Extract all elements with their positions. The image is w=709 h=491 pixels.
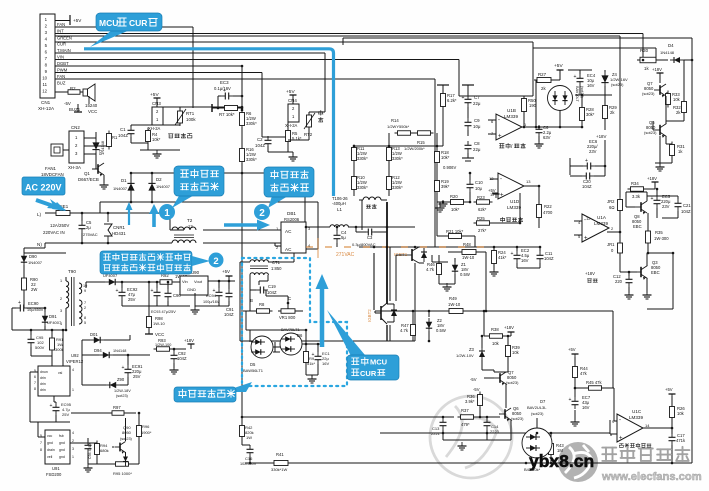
svg-text:(sot23): (sot23) bbox=[531, 411, 544, 416]
terminal bar bbox=[211, 104, 213, 112]
diode D01 bbox=[90, 337, 104, 343]
power +5V R44 bbox=[572, 354, 579, 358]
svg-text:4.7k: 4.7k bbox=[426, 267, 435, 272]
resistor R29 2k bbox=[603, 103, 608, 122]
thermistor RT2 bbox=[307, 112, 312, 130]
svg-text:U92: U92 bbox=[71, 353, 79, 358]
resistor R33 10k bbox=[666, 91, 671, 108]
svg-text:12A/250V: 12A/250V bbox=[50, 223, 69, 228]
varistor CNR1 HD431 bbox=[104, 213, 112, 243]
capacitor C95 102 bbox=[28, 335, 35, 347]
svg-text:EBC: EBC bbox=[651, 270, 660, 275]
cyan arrow AC input bbox=[34, 199, 66, 210]
svg-text:-: - bbox=[498, 118, 500, 124]
label VCC bbox=[148, 328, 150, 334]
capacitor C7 22u bbox=[465, 95, 472, 107]
cyan circled 1 bbox=[159, 204, 175, 220]
svg-text:PWM: PWM bbox=[57, 68, 68, 73]
cyan arrow small up bbox=[128, 208, 130, 225]
svg-text:10μ/450V: 10μ/450V bbox=[27, 308, 44, 312]
wire psu left bbox=[24, 247, 45, 249]
svg-text:FAN: FAN bbox=[57, 74, 65, 79]
svg-text:8: 8 bbox=[84, 316, 86, 320]
svg-text:D7: D7 bbox=[540, 399, 546, 404]
svg-text:+5V: +5V bbox=[286, 89, 295, 95]
svg-text:gnd: gnd bbox=[59, 441, 65, 445]
svg-text:Z3: Z3 bbox=[469, 347, 475, 352]
resistor R26 10k bbox=[670, 404, 675, 421]
svg-text:+18V: +18V bbox=[184, 338, 194, 343]
zener Z3 10V bbox=[481, 336, 483, 348]
svg-text:1N4007: 1N4007 bbox=[156, 184, 171, 189]
resistor R46 4.7k bbox=[437, 261, 442, 278]
svg-text:+5V: +5V bbox=[222, 269, 230, 274]
svg-text:D91: D91 bbox=[49, 314, 57, 319]
svg-text:8: 8 bbox=[34, 387, 36, 391]
wire MCU bus pin6 bbox=[55, 52, 325, 54]
svg-text:10μ: 10μ bbox=[475, 186, 483, 191]
svg-text:330k*: 330k* bbox=[246, 157, 257, 162]
capacitor EC93 47u/25V bbox=[154, 288, 161, 300]
svg-text:7: 7 bbox=[40, 441, 42, 445]
wire q7 emitter bbox=[479, 407, 481, 417]
svg-text:4: 4 bbox=[72, 431, 74, 435]
dual diode D7 BAV2UL3L bbox=[522, 428, 552, 458]
svg-text:LM339: LM339 bbox=[594, 221, 608, 226]
svg-text:R38: R38 bbox=[491, 327, 499, 332]
connector CN3 XH-2A bbox=[152, 107, 163, 125]
svg-text:4700: 4700 bbox=[543, 210, 553, 215]
wire d5 d6 bbox=[249, 330, 251, 342]
callout MCU CUR bubble bbox=[90, 30, 130, 47]
ground R46 Z1 bbox=[438, 276, 440, 284]
dual diode D51 BAV99 bbox=[548, 86, 573, 111]
wire Q1 emitter bbox=[103, 175, 105, 183]
svg-text:drain: drain bbox=[47, 448, 55, 452]
svg-text:2: 2 bbox=[72, 439, 74, 443]
svg-text:ybx8.cn: ybx8.cn bbox=[529, 451, 594, 471]
svg-text:BAW56LT1: BAW56LT1 bbox=[243, 368, 264, 373]
wire heavy emitter x374 bbox=[373, 253, 375, 310]
svg-text:R30: R30 bbox=[640, 48, 649, 53]
capacitor EC92 47u bbox=[119, 288, 126, 300]
svg-text:DGBT: DGBT bbox=[57, 61, 69, 66]
transistor Q90 8050 bbox=[115, 442, 126, 454]
capacitor C17 471k bbox=[669, 433, 676, 445]
svg-text:FAN: FAN bbox=[57, 22, 65, 27]
wire CT1 primary bbox=[240, 261, 250, 263]
svg-text:gnd: gnd bbox=[47, 441, 53, 445]
svg-text:1W-300: 1W-300 bbox=[654, 236, 669, 241]
svg-text:4: 4 bbox=[60, 322, 62, 326]
svg-text:XH-12A: XH-12A bbox=[38, 106, 55, 111]
transistor Q5 bbox=[654, 124, 667, 138]
wire q7 cluster bbox=[533, 47, 656, 49]
svg-text:1W-10: 1W-10 bbox=[153, 321, 165, 326]
svg-text:CUR: CUR bbox=[360, 369, 377, 378]
resistor R13 330k* bbox=[387, 145, 392, 164]
capacitor C19 104Z bbox=[256, 287, 268, 294]
svg-text:L1: L1 bbox=[337, 207, 342, 212]
resistor R34 3.3k bbox=[628, 187, 647, 192]
svg-text:330k*: 330k* bbox=[392, 156, 403, 161]
svg-text:104Z: 104Z bbox=[177, 356, 187, 361]
svg-text:2μ: 2μ bbox=[86, 225, 91, 230]
svg-text:Vout: Vout bbox=[194, 279, 203, 284]
svg-text:1N4148: 1N4148 bbox=[660, 50, 675, 55]
svg-text:25V: 25V bbox=[62, 412, 69, 417]
svg-text:-: - bbox=[500, 177, 502, 183]
svg-text:XH-2A: XH-2A bbox=[285, 123, 298, 128]
svg-text:JR2: JR2 bbox=[607, 199, 615, 204]
capacitor C9 10u bbox=[465, 118, 472, 130]
svg-text:1/2W/200k*: 1/2W/200k* bbox=[404, 146, 425, 151]
zener Z4 16V bbox=[604, 70, 606, 72]
resistor R4 10k* bbox=[146, 128, 151, 145]
diode D93 UF4007 bbox=[105, 279, 119, 285]
svg-text:R14: R14 bbox=[391, 118, 399, 123]
svg-text:63V: 63V bbox=[543, 135, 551, 140]
svg-text:RT2: RT2 bbox=[304, 132, 313, 137]
svg-text:1/2W-10V: 1/2W-10V bbox=[456, 353, 474, 358]
svg-text:IGBT2: IGBT2 bbox=[367, 309, 372, 322]
svg-text:-5V: -5V bbox=[470, 377, 477, 382]
svg-text:47k: 47k bbox=[580, 371, 588, 376]
resistor R14 550k* bbox=[395, 131, 414, 136]
svg-text:(sot23): (sot23) bbox=[642, 91, 655, 96]
resistor R95 1000* bbox=[113, 462, 132, 467]
svg-text:T2: T2 bbox=[187, 218, 193, 223]
power +5V CN3 bbox=[154, 98, 161, 102]
svg-text:INT: INT bbox=[57, 29, 64, 34]
wire pan verticals bbox=[361, 200, 363, 230]
capacitor EC7 43u bbox=[572, 397, 579, 409]
pin label FAN bbox=[55, 26, 193, 28]
svg-text:(sot23): (sot23) bbox=[644, 130, 657, 135]
orange power path bbox=[306, 246, 490, 248]
svg-text:0.5W: 0.5W bbox=[460, 272, 470, 277]
cyan circled 2 bbox=[254, 204, 270, 220]
dual diode D5 BAW56LT1 bbox=[251, 336, 273, 358]
svg-text:(sot23): (sot23) bbox=[611, 82, 624, 87]
svg-text:4: 4 bbox=[72, 368, 74, 372]
svg-text:0.3μ/800VAC: 0.3μ/800VAC bbox=[352, 242, 376, 247]
svg-text:C10: C10 bbox=[475, 180, 483, 185]
svg-text:1k: 1k bbox=[644, 66, 649, 71]
svg-text:16V: 16V bbox=[322, 361, 329, 366]
svg-text:+18V: +18V bbox=[596, 134, 606, 139]
capacitor C90 bbox=[165, 289, 172, 301]
svg-text:25V: 25V bbox=[133, 374, 141, 379]
ground CN3 bbox=[147, 143, 149, 150]
capacitor C8 22u bbox=[465, 141, 472, 153]
svg-text:330k*1W: 330k*1W bbox=[271, 467, 287, 472]
svg-text:Z90: Z90 bbox=[117, 377, 125, 382]
svg-text:1/2WY550k*: 1/2WY550k* bbox=[387, 124, 410, 129]
capacitor C13 2221 bbox=[440, 418, 447, 430]
svg-text:R27: R27 bbox=[538, 72, 547, 77]
svg-text:2221: 2221 bbox=[431, 431, 441, 436]
svg-text:drin: drin bbox=[40, 382, 46, 386]
svg-text:U1C: U1C bbox=[632, 409, 642, 414]
svg-text:R95 1000*: R95 1000* bbox=[113, 471, 132, 476]
svg-text:+: + bbox=[619, 436, 623, 442]
wire detect rail y173 bbox=[131, 172, 305, 174]
resistor R2 bbox=[65, 90, 83, 95]
wire fan row y417 bbox=[242, 416, 454, 418]
svg-text:C2: C2 bbox=[257, 137, 263, 142]
ground Q3 bbox=[646, 278, 648, 293]
svg-text:10k*: 10k* bbox=[451, 207, 460, 212]
label zhuwen bbox=[318, 110, 323, 115]
svg-text:(sot23): (sot23) bbox=[116, 394, 129, 398]
svg-text:D5: D5 bbox=[250, 362, 256, 367]
svg-text:BAV70LT: BAV70LT bbox=[575, 86, 579, 102]
svg-text:1: 1 bbox=[60, 279, 62, 283]
resistor R1 bbox=[107, 131, 112, 150]
svg-text:R37: R37 bbox=[461, 408, 469, 413]
svg-text:220: 220 bbox=[615, 279, 623, 284]
svg-text:C16: C16 bbox=[245, 456, 253, 461]
svg-text:+: + bbox=[569, 397, 572, 403]
dual diode D6 BAV70LT1 bbox=[280, 333, 302, 355]
diode D94 1N4148 bbox=[99, 352, 113, 358]
callout AC 220V box bbox=[22, 177, 65, 195]
svg-text:+: + bbox=[462, 95, 465, 101]
transistor Q7 top bbox=[654, 84, 666, 97]
watermark elecfans gray disc logo bbox=[558, 442, 598, 482]
svg-text:1N4148: 1N4148 bbox=[100, 140, 105, 155]
wire MCU bus GREEN pin4 bbox=[55, 35, 620, 37]
svg-text:6: 6 bbox=[34, 375, 36, 379]
ground CN4 bbox=[292, 152, 294, 155]
resistor R45 47k bbox=[586, 386, 605, 391]
svg-text:30k*: 30k* bbox=[586, 112, 595, 117]
svg-text:(sot23): (sot23) bbox=[511, 416, 524, 421]
transistor Q6 8050 bbox=[499, 408, 511, 421]
svg-text:R21 10k*: R21 10k* bbox=[446, 229, 464, 234]
svg-text:500V: 500V bbox=[35, 345, 45, 350]
resistor R18 10k* bbox=[435, 149, 440, 166]
capacitor EC6 220u bbox=[583, 163, 595, 170]
wire live y202 bbox=[100, 201, 318, 203]
connector CN4 XH-2A bbox=[288, 104, 299, 122]
svg-text:vsl: vsl bbox=[58, 371, 63, 375]
wire igbt1 emitter bbox=[414, 263, 416, 341]
svg-text:R20: R20 bbox=[450, 194, 458, 199]
resistor R25 27k* bbox=[474, 221, 493, 226]
svg-text:10k*: 10k* bbox=[152, 137, 161, 142]
wire DC+ y227 bbox=[306, 226, 330, 228]
svg-text:10k: 10k bbox=[677, 411, 685, 416]
ic U92 VIPER12 bbox=[38, 366, 70, 396]
svg-text:vcc: vcc bbox=[47, 434, 53, 438]
svg-text:+5V: +5V bbox=[554, 63, 563, 69]
resistor R28 30k* bbox=[580, 105, 585, 124]
capacitor C5 2u bbox=[79, 221, 86, 233]
svg-text:VIN: VIN bbox=[57, 55, 64, 60]
svg-text:gnd: gnd bbox=[59, 448, 65, 452]
svg-text:D94: D94 bbox=[94, 348, 102, 353]
svg-text:BUZ1: BUZ1 bbox=[69, 107, 81, 112]
svg-text:T.MAIN: T.MAIN bbox=[57, 48, 71, 53]
ground EC7 bbox=[571, 418, 580, 426]
svg-text:AC: AC bbox=[285, 229, 292, 234]
resistor R98 1W-10 bbox=[147, 314, 152, 331]
svg-text:RT1: RT1 bbox=[186, 111, 195, 116]
svg-text:D90: D90 bbox=[29, 254, 37, 259]
ground Q5 bbox=[659, 163, 661, 165]
svg-text:4.7k: 4.7k bbox=[400, 328, 409, 333]
svg-text:-5V: -5V bbox=[64, 101, 71, 106]
svg-text:L): L) bbox=[37, 212, 42, 217]
wire MCU bus PWM pin9 bbox=[55, 72, 262, 74]
svg-text:10k: 10k bbox=[512, 350, 520, 355]
capacitor C11 104Z bbox=[537, 251, 544, 263]
svg-text:10k*: 10k* bbox=[441, 155, 450, 160]
svg-text:VIPER12: VIPER12 bbox=[66, 359, 84, 364]
svg-text:275VAC: 275VAC bbox=[83, 232, 98, 237]
svg-text:R23: R23 bbox=[477, 195, 485, 200]
diode D91 UF4007 bbox=[44, 308, 46, 312]
svg-text:+: + bbox=[50, 403, 53, 409]
svg-text:+: + bbox=[651, 196, 654, 202]
svg-text:Q1: Q1 bbox=[84, 171, 90, 176]
inductor L1 T106-26 400uH bbox=[330, 225, 348, 227]
resistor R17 6.2k* bbox=[441, 91, 446, 110]
svg-text:C7: C7 bbox=[474, 95, 480, 100]
svg-text:1/2W-18V: 1/2W-18V bbox=[114, 389, 131, 393]
diode D4 1N4148 bbox=[670, 57, 684, 63]
svg-text:+18V: +18V bbox=[504, 325, 514, 330]
svg-text:+: + bbox=[312, 352, 315, 358]
cyan circled 2b bbox=[209, 253, 224, 268]
capacitor EC5 220u bbox=[654, 196, 661, 208]
wire t90 sec bbox=[85, 281, 87, 283]
capacitor C14 2223 bbox=[484, 418, 491, 430]
svg-text:+: + bbox=[511, 251, 514, 257]
svg-text:1: 1 bbox=[72, 455, 74, 459]
speaker BUZ1 bbox=[83, 84, 95, 104]
resistor R48 1W-10 bbox=[459, 250, 479, 255]
resistor R21 10k* bbox=[446, 234, 465, 239]
cyan arrow right to DB1 bbox=[224, 223, 259, 227]
svg-text:FAN1: FAN1 bbox=[45, 166, 57, 171]
wire sense chain x242 bbox=[241, 66, 243, 112]
transformer T2 line filter bbox=[172, 227, 196, 230]
resistor R49 1W-10 bbox=[446, 309, 466, 314]
wire gate node bbox=[432, 261, 448, 263]
svg-text:CUR: CUR bbox=[57, 42, 66, 47]
svg-text:7: 7 bbox=[34, 381, 36, 385]
wire cn3 top bbox=[180, 106, 242, 108]
op-amp U1D LM339 bbox=[498, 173, 524, 199]
resistor R15 200k* bbox=[415, 131, 434, 136]
svg-text:12: 12 bbox=[42, 89, 47, 94]
svg-text:12: 12 bbox=[188, 224, 193, 229]
svg-text:104Z: 104Z bbox=[267, 290, 277, 295]
svg-text:www.elecfans.com: www.elecfans.com bbox=[601, 471, 702, 483]
wire right border bbox=[691, 38, 693, 463]
svg-text:+18V: +18V bbox=[647, 176, 657, 181]
wire y247 rail bbox=[359, 246, 540, 248]
resistor R5 5.1k* bbox=[286, 128, 291, 145]
wire ct1 secondary bbox=[249, 275, 251, 288]
wire MCU bus VIN pin7 bbox=[55, 59, 459, 61]
svg-text:330k*: 330k* bbox=[392, 185, 403, 190]
svg-text:AC: AC bbox=[285, 247, 292, 252]
svg-text:+5V: +5V bbox=[568, 347, 576, 352]
svg-text:EC90: EC90 bbox=[28, 301, 39, 306]
op-amp U1B LM339 bbox=[496, 114, 522, 140]
svg-text:6.2k*: 6.2k* bbox=[447, 98, 457, 103]
watermark dianzifashaoyou bbox=[602, 447, 689, 462]
wire surge row y433 bbox=[380, 432, 610, 434]
svg-text:vell: vell bbox=[47, 455, 52, 459]
callout voltage detect bubble bbox=[172, 194, 196, 208]
svg-text:1900*: 1900* bbox=[141, 430, 152, 435]
svg-text:C21: C21 bbox=[683, 203, 691, 208]
svg-text:R22: R22 bbox=[544, 204, 552, 209]
transformer T90 bbox=[66, 281, 69, 308]
resistor R37 479* bbox=[458, 415, 477, 420]
svg-text:+: + bbox=[18, 300, 21, 306]
svg-text:LM339: LM339 bbox=[504, 114, 518, 119]
svg-text:25V: 25V bbox=[128, 297, 136, 302]
wire AC neutral N bbox=[45, 242, 172, 244]
svg-text:C3: C3 bbox=[367, 235, 373, 240]
wire outer top border bbox=[343, 37, 692, 39]
svg-text:-400μH: -400μH bbox=[332, 201, 346, 206]
resistor R93 100 bbox=[154, 347, 173, 352]
resistor R11 330k* bbox=[352, 145, 357, 164]
callout pan coil bubble bbox=[268, 196, 288, 208]
resistor R96 1900* bbox=[137, 423, 142, 440]
wire MCU bus INT pin3 bbox=[55, 33, 643, 35]
resistor R32 2k bbox=[682, 99, 687, 116]
svg-text:41k*: 41k* bbox=[498, 255, 507, 260]
svg-text:14: 14 bbox=[645, 423, 650, 428]
svg-text:RS2006: RS2006 bbox=[284, 217, 300, 222]
capacitor C2 104Z bbox=[265, 136, 272, 148]
transformer CT1 1:850 bbox=[250, 260, 268, 262]
svg-text:GREEN: GREEN bbox=[57, 36, 72, 41]
svg-text:3.3k: 3.3k bbox=[632, 194, 641, 199]
wire Q3 frame bbox=[672, 253, 674, 309]
svg-text:100μ/16V: 100μ/16V bbox=[203, 300, 220, 304]
svg-text:3: 3 bbox=[72, 447, 74, 451]
svg-text:+: + bbox=[151, 288, 154, 294]
cyan arrow big up CUR bbox=[320, 285, 325, 347]
svg-text:XH-3A: XH-3A bbox=[68, 165, 81, 170]
svg-text:330k*: 330k* bbox=[357, 156, 368, 161]
svg-text:1: 1 bbox=[72, 388, 74, 392]
svg-text:39k*: 39k* bbox=[441, 184, 450, 189]
svg-text:22μ: 22μ bbox=[473, 101, 481, 106]
svg-text:D01: D01 bbox=[90, 332, 98, 337]
capacitor C94 bbox=[85, 441, 92, 453]
svg-text:2: 2 bbox=[213, 256, 218, 267]
transistor Q3 8050 EBC bbox=[635, 266, 648, 280]
resistor JR1 bbox=[618, 240, 623, 256]
zener Z90 18V bbox=[106, 382, 120, 388]
capacitor C10 10u bbox=[467, 180, 474, 192]
diode D90 1N4007 bbox=[23, 248, 25, 253]
power +5V R27 bbox=[557, 70, 564, 74]
svg-text:104Z: 104Z bbox=[255, 143, 265, 148]
resistor R27 2k bbox=[534, 78, 554, 83]
resistor R9 51k* bbox=[304, 349, 309, 366]
